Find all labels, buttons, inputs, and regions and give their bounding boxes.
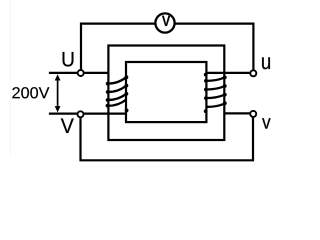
terminal V [78,111,84,117]
secondary winding turn dots [204,73,227,113]
terminal u [250,70,256,76]
label V [61,119,74,133]
scan artifact faint line [10,0,12,155]
wire top-left from terminal U up and right to voltmeter [81,24,155,70]
primary winding turn dots [106,75,129,112]
wire V lead [49,112,127,114]
secondary winding (right coil) [206,77,225,107]
voltmeter letter V [162,16,170,26]
label 200V [12,87,49,98]
primary winding (left coil) [108,77,127,106]
wire bottom jumper V to v [81,118,254,161]
label U [63,52,74,67]
wire v lead [224,112,250,114]
wire U lead [49,72,109,74]
label v [262,118,271,128]
label u [262,57,270,69]
transformer core outer outline [108,46,224,141]
voltmeter V [155,13,174,32]
wire u lead [206,72,250,74]
terminal v [250,111,256,117]
transformer core window inner outline [126,62,206,122]
voltage arrow 200V double-headed [55,74,61,112]
wire top-right from voltmeter right and down to terminal u [175,24,253,70]
terminal U [78,70,84,76]
